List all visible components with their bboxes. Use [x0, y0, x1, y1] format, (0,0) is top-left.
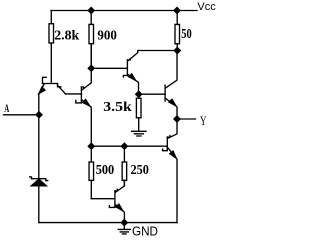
- transistor Q3 collector: [128, 51, 138, 61]
- diode D1 anode triangle: [31, 179, 46, 186]
- transistor Q5 emitter arrow: [170, 151, 176, 158]
- resistor R3 50 body: [175, 24, 180, 43]
- transistor Q2 schottky hook bottom: [76, 100, 82, 103]
- node dot output Y: [174, 116, 180, 122]
- transistor Q1 collector: [58, 85, 66, 94]
- svg-text:Vcc: Vcc: [197, 1, 216, 13]
- node dot on Vcc rail at 50: [174, 8, 180, 14]
- transistor Q3 schottky hook bottom: [123, 75, 127, 77]
- transistor Q1 base bar: [43, 83, 58, 85]
- resistor R2 900 leads: [90, 11, 92, 69]
- transistor Q3 emitter: [128, 75, 138, 95]
- wire node to Q3 base: [91, 67, 127, 69]
- wire ground rail: [39, 222, 177, 224]
- transistor Q4 emitter: [166, 99, 177, 119]
- node dot 500 top: [88, 143, 94, 149]
- transistor Q1 schottky hook left: [43, 77, 47, 83]
- transistor Q2 collector: [82, 83, 91, 90]
- transistor Q2 emitter: [82, 100, 92, 146]
- transistor Q5 collector: [168, 119, 177, 138]
- transistor Q6 emitter arrow: [116, 204, 123, 211]
- wire Vcc top rail: [51, 10, 197, 12]
- node dot ground: [121, 220, 127, 226]
- transistor Q5 emitter: [168, 148, 177, 223]
- wire input A: [4, 114, 40, 116]
- transistor Q3 schottky hook top: [127, 59, 130, 60]
- wire Q2 collector vertical: [90, 44, 92, 83]
- transistor Q1 emitter arrow: [39, 87, 45, 94]
- wire 3.5k node to Q4 base: [139, 93, 165, 95]
- ground symbol mid: [132, 131, 146, 136]
- node dot on Vcc rail at 900: [88, 8, 94, 14]
- transistor Q3 emitter arrow: [129, 74, 136, 81]
- resistor R6 250 body: [122, 162, 127, 180]
- resistor R5 3.5k leads: [138, 94, 140, 131]
- resistor R4 500 leads: [90, 146, 92, 199]
- wire Q1 emitter down to node A: [38, 94, 40, 115]
- wire to Y label: [177, 118, 196, 120]
- transistor Q1 emitter: [39, 84, 44, 94]
- transistor Q3 base bar: [126, 60, 128, 76]
- node dot input A: [36, 112, 42, 118]
- svg-text:Y: Y: [200, 113, 207, 128]
- node dot Q2 collector: [88, 65, 94, 71]
- svg-text:3.5k: 3.5k: [103, 100, 132, 115]
- svg-text:GND: GND: [132, 224, 158, 238]
- wire Q1 collector to Q2 base: [66, 93, 82, 95]
- resistor R2 900 body: [89, 24, 94, 43]
- transistor Q2 schottky hook top: [81, 87, 83, 89]
- resistor R6 250 leads: [123, 146, 125, 186]
- transistor Q4 collector: [166, 51, 177, 88]
- resistor R5 3.5k body: [136, 98, 141, 118]
- transistor Q2 base bar: [80, 87, 82, 101]
- transistor Q6 schottky hook top: [115, 189, 117, 191]
- svg-text:50: 50: [181, 27, 192, 42]
- ground symbol bottom: [118, 223, 130, 234]
- transistor Q1 schottky hook right: [58, 84, 61, 87]
- svg-text:500: 500: [96, 163, 115, 178]
- transistor Q6 emitter: [116, 205, 125, 223]
- transistor Q6 collector: [116, 180, 125, 192]
- node dot 3.5k top: [136, 91, 142, 97]
- transistor Q6 base bar: [114, 191, 116, 206]
- wire 500 to Q6 base: [91, 198, 115, 200]
- transistor Q5 schottky hook bottom: [163, 149, 168, 151]
- wire Q3 collector to 50: [138, 50, 177, 52]
- transistor Q4 emitter arrow: [169, 99, 176, 106]
- svg-text:2.8k: 2.8k: [54, 28, 79, 43]
- diode D1 wire top: [38, 115, 40, 179]
- transistor Q5 schottky hook top: [167, 136, 170, 138]
- resistor R1 2.8k leads: [50, 11, 52, 84]
- transistor Q6 schottky hook bottom: [109, 206, 115, 208]
- wire squaring network rail: [91, 145, 167, 147]
- diode D1 wire bottom: [38, 186, 40, 223]
- resistor R4 500 body: [89, 162, 94, 180]
- svg-text:900: 900: [97, 28, 117, 43]
- svg-text:A: A: [4, 103, 9, 115]
- resistor R1 2.8k body: [49, 24, 54, 43]
- transistor Q5 base bar: [166, 137, 168, 149]
- node dot 50 bottom: [174, 48, 180, 54]
- diode D1 schottky hook left: [30, 177, 32, 179]
- transistor Q4 base bar: [164, 85, 166, 101]
- node dot 250 top: [121, 143, 127, 149]
- svg-text:250: 250: [131, 163, 149, 178]
- transistor Q2 emitter arrow: [83, 100, 90, 106]
- diode D1 cathode bar: [32, 178, 46, 180]
- resistor R3 50 leads: [176, 11, 178, 51]
- diode D1 schottky hook right: [46, 179, 48, 181]
